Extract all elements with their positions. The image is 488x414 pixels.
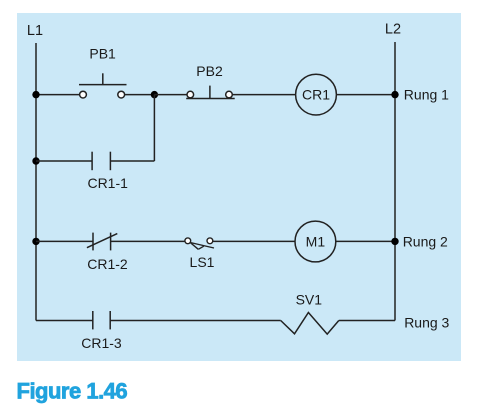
wire L1 to CR1-1 contact — [36, 160, 92, 162]
wire PB2 to CR1 coil — [232, 94, 295, 96]
svg-text:CR1-2: CR1-2 — [87, 256, 128, 272]
wire LS1 to M1 coil — [213, 240, 295, 242]
wire CR1-2 to LS1 — [111, 240, 185, 242]
junction rung1 at L2 — [391, 91, 398, 98]
svg-text:PB2: PB2 — [196, 63, 223, 79]
junction branch at L1 — [32, 157, 39, 164]
contact CR1-3 (NO) — [93, 311, 110, 329]
wire CR1-3 to SV1 — [110, 320, 281, 322]
pushbutton PB1 (NO) — [79, 73, 127, 98]
wire branch vertical from rung1 junction — [153, 95, 155, 161]
wire CR1 to L2 rail — [336, 94, 395, 96]
junction node rung1/branch — [151, 91, 158, 98]
solenoid SV1 — [281, 313, 339, 335]
svg-text:M1: M1 — [306, 234, 326, 250]
svg-text:LS1: LS1 — [190, 254, 215, 270]
svg-text:Rung 2: Rung 2 — [403, 234, 448, 250]
contact CR1-2 (NC) — [87, 233, 117, 251]
wire L1 to CR1-2 contact — [36, 240, 93, 242]
wire junction to PB2 — [154, 94, 187, 96]
pushbutton PB2 (NC) — [186, 86, 235, 99]
svg-text:L2: L2 — [385, 22, 401, 38]
wire M1 to L2 rail — [336, 240, 395, 242]
svg-text:Rung 3: Rung 3 — [404, 315, 449, 331]
motor coil M1 — [295, 221, 336, 262]
svg-text:L1: L1 — [27, 23, 43, 39]
wire CR1-1 to branch vertical — [110, 160, 154, 162]
wire L1 rail — [35, 43, 37, 321]
contact CR1-1 (NO) — [92, 152, 110, 171]
wire SV1 to L2 rail — [339, 320, 395, 322]
svg-text:PB1: PB1 — [89, 46, 116, 62]
svg-text:CR1: CR1 — [302, 87, 330, 103]
svg-text:SV1: SV1 — [296, 292, 323, 308]
wire rung3 L1 to CR1-3 — [36, 320, 93, 322]
wire rung1 L1 to PB1 — [36, 94, 80, 96]
junction rung2 at L2 — [391, 238, 398, 245]
limit switch LS1 (NO) — [185, 238, 214, 249]
junction rung1 at L1 — [32, 91, 39, 98]
svg-text:Rung 1: Rung 1 — [404, 87, 449, 103]
wire PB1 to junction — [125, 94, 155, 96]
svg-text:CR1-1: CR1-1 — [87, 175, 128, 191]
wire L2 rail — [394, 42, 396, 321]
svg-text:Figure 1.46: Figure 1.46 — [17, 379, 128, 404]
junction rung2 at L1 — [32, 238, 39, 245]
background panel — [17, 13, 461, 361]
coil CR1 — [296, 74, 337, 115]
svg-text:CR1-3: CR1-3 — [81, 335, 122, 351]
